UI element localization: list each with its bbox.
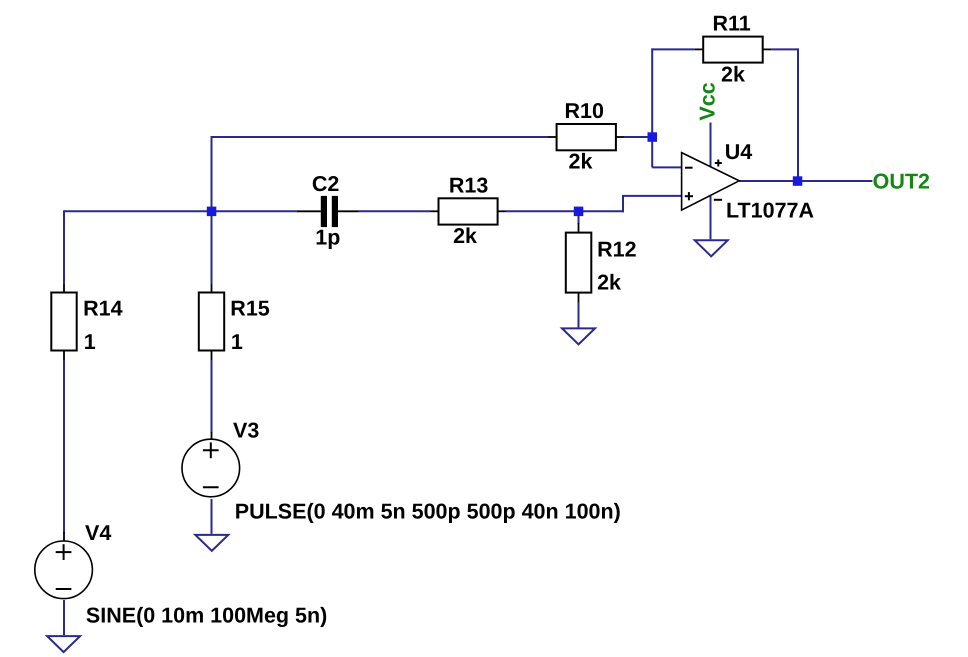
svg-text:Vcc: Vcc — [696, 82, 720, 120]
svg-text:C2: C2 — [312, 172, 340, 196]
label LT1077A — [726, 198, 814, 222]
wire black lead R13 left — [430, 210, 439, 212]
wire Vcc to op-amp — [710, 123, 712, 167]
svg-text:LT1077A: LT1077A — [726, 198, 814, 222]
svg-text:R13: R13 — [449, 173, 488, 197]
junction node R10 output — [648, 132, 658, 142]
svg-text:SINE(0 10m 100Meg 5n): SINE(0 10m 100Meg 5n) — [86, 603, 327, 627]
net label OUT2 — [873, 170, 930, 194]
svg-text:R11: R11 — [713, 12, 751, 36]
svg-text:2k: 2k — [721, 63, 745, 87]
wire to R11 left — [652, 48, 695, 50]
wire black lead R14 top — [63, 283, 65, 293]
wire vertical node to top rail — [211, 137, 213, 283]
svg-text:U4: U4 — [725, 140, 753, 164]
value PULSE V3 — [235, 500, 621, 524]
wire node to R12 — [578, 212, 580, 224]
wire black lead V4 top — [63, 532, 65, 542]
label R10 — [565, 99, 604, 123]
wire jog up — [622, 196, 624, 212]
wire V3 to ground — [211, 499, 213, 534]
label C2 — [312, 172, 340, 196]
wire top rail to R10 — [211, 136, 549, 138]
value 1 R14 — [84, 330, 96, 354]
wire op-amp to ground — [710, 196, 712, 239]
value 2k R11 — [721, 63, 745, 87]
svg-text:R14: R14 — [83, 296, 122, 320]
capacitor C2 — [321, 196, 338, 227]
wire black lead R11 right — [763, 48, 771, 50]
wire black lead C2 right — [338, 210, 359, 212]
wire R10 to node — [624, 136, 652, 138]
op-amp U1 triangle — [682, 153, 740, 211]
label V3 — [233, 418, 259, 442]
op-amp noninverting input mark — [685, 192, 693, 200]
resistor R13 — [439, 198, 498, 224]
svg-text:OUT2: OUT2 — [873, 170, 930, 194]
wire black lead R14 bottom — [63, 351, 65, 361]
svg-text:1: 1 — [231, 330, 243, 354]
svg-text:1p: 1p — [315, 225, 340, 249]
ground under op-amp — [695, 240, 728, 256]
svg-text:R15: R15 — [230, 296, 269, 320]
svg-text:R10: R10 — [565, 99, 604, 123]
wire black lead R10 left — [548, 136, 557, 138]
wire main horizontal left — [64, 210, 298, 212]
wire feedback left vertical — [651, 48, 653, 167]
wire to inverting input — [652, 166, 681, 168]
value 2k R10 — [569, 150, 593, 174]
svg-text:V3: V3 — [233, 418, 259, 442]
wire V4 to ground — [63, 600, 65, 635]
wire black lead R11 left — [695, 48, 703, 50]
junction node output — [793, 176, 803, 186]
value 2k R12 — [597, 271, 621, 295]
wire output — [739, 180, 872, 182]
wire black lead R15 bottom — [211, 351, 213, 361]
net label Vcc — [696, 82, 720, 120]
label R14 — [83, 296, 122, 320]
voltage source V4 — [35, 541, 93, 599]
wire black lead C2 left — [298, 210, 321, 212]
wire R13 to jog — [506, 210, 624, 212]
value 2k R13 — [453, 224, 477, 248]
wire black lead R12 top — [578, 223, 580, 233]
wire black lead V3 top — [211, 432, 213, 441]
op-amp inverting input mark — [685, 167, 693, 169]
ground under R12 — [562, 328, 595, 344]
resistor R14 — [51, 293, 76, 351]
ground under V4 — [47, 636, 80, 652]
svg-text:2k: 2k — [597, 271, 621, 295]
label R13 — [449, 173, 488, 197]
wire left vertical down to R14 — [63, 210, 65, 283]
wire black lead R10 right — [616, 136, 625, 138]
value 1p — [315, 225, 340, 249]
svg-text:1: 1 — [84, 330, 96, 354]
label R15 — [230, 296, 269, 320]
wire feedback right vertical — [797, 48, 799, 181]
svg-text:R12: R12 — [597, 238, 636, 262]
svg-text:V4: V4 — [85, 521, 111, 545]
op-amp negative supply mark — [714, 199, 722, 201]
svg-text:2k: 2k — [569, 150, 593, 174]
wire R11 right — [771, 48, 798, 50]
resistor R11 — [703, 37, 763, 63]
value SINE V4 — [86, 603, 327, 627]
value 1 R15 — [231, 330, 243, 354]
wire black lead R13 right — [498, 210, 506, 212]
resistor R12 — [566, 233, 592, 293]
wire R12 to ground — [578, 302, 580, 327]
resistor R10 — [557, 124, 616, 150]
wire to noninverting input — [622, 195, 682, 197]
junction node main — [207, 207, 217, 217]
wire black lead R12 bottom — [578, 293, 580, 303]
ground under V3 — [195, 535, 228, 551]
label U4 — [725, 140, 753, 164]
svg-text:PULSE(0 40m 5n 500p 500p 40n 1: PULSE(0 40m 5n 500p 500p 40n 100n) — [235, 500, 621, 524]
resistor R15 — [199, 293, 224, 351]
label R11 — [713, 12, 751, 36]
wire R14 to V4 — [63, 360, 65, 533]
wire black lead R15 top — [211, 283, 213, 293]
junction node R12 — [574, 207, 584, 217]
label R12 — [597, 238, 636, 262]
voltage source V3 — [182, 439, 240, 497]
label V4 — [85, 521, 111, 545]
svg-text:2k: 2k — [453, 224, 477, 248]
wire between C2 and R13 — [359, 210, 431, 212]
wire R15 to V3 — [211, 360, 213, 433]
op-amp positive supply mark — [715, 160, 722, 167]
